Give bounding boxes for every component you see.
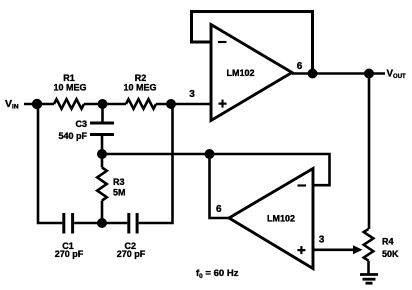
svg-text:270 pF: 270 pF: [117, 249, 146, 259]
svg-text:LM102: LM102: [226, 68, 254, 78]
svg-text:LM102: LM102: [267, 213, 295, 223]
svg-text:R3: R3: [113, 177, 125, 187]
svg-text:6: 6: [297, 61, 303, 72]
svg-text:50K: 50K: [382, 249, 399, 259]
svg-text:10 MEG: 10 MEG: [123, 83, 156, 93]
svg-text:270 pF: 270 pF: [55, 249, 84, 259]
svg-text:5M: 5M: [113, 188, 126, 198]
svg-text:C3: C3: [75, 119, 87, 129]
svg-text:3: 3: [189, 89, 195, 100]
svg-text:R1: R1: [63, 73, 75, 83]
svg-text:540 pF: 540 pF: [58, 131, 87, 141]
svg-text:R4: R4: [382, 236, 394, 246]
svg-text:VOUT: VOUT: [387, 69, 407, 81]
svg-text:VIN: VIN: [5, 98, 19, 111]
svg-text:R2: R2: [135, 73, 147, 83]
svg-text:f0 = 60 Hz: f0 = 60 Hz: [196, 268, 239, 280]
svg-text:6: 6: [216, 204, 222, 215]
svg-text:3: 3: [319, 234, 325, 245]
svg-text:10 MEG: 10 MEG: [53, 83, 86, 93]
